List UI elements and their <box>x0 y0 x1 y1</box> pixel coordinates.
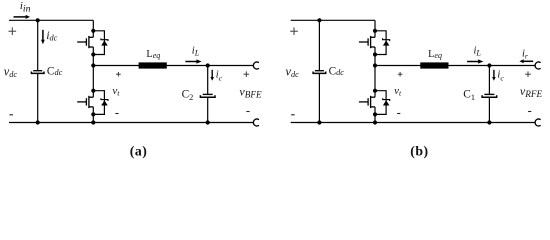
junction dot C2 top <box>206 63 210 67</box>
arrow iL <box>185 59 201 63</box>
transistor Q2 <box>77 96 93 108</box>
wire bottom return bus <box>9 122 254 124</box>
svg-text:ic: ic <box>497 70 504 83</box>
minus sign vt <box>115 113 118 115</box>
junction dot Cdc top <box>317 18 321 22</box>
arrow iL <box>467 59 483 63</box>
svg-text:vt: vt <box>112 85 120 98</box>
svg-text:vRFE: vRFE <box>520 84 543 99</box>
wire midpoint to output <box>93 65 253 67</box>
junction dot leg bottom <box>91 120 95 124</box>
svg-text:ic: ic <box>216 70 223 83</box>
wire C1 branch lower <box>488 97 490 122</box>
minus sign vRFE port <box>528 111 531 113</box>
minus sign vdc port <box>9 114 13 116</box>
plus sign vt <box>116 72 121 77</box>
junction dot drain Q2 <box>91 89 95 93</box>
terminal vRFE - <box>535 119 540 126</box>
wire Cdc branch lower <box>318 74 320 123</box>
svg-text:Leq: Leq <box>428 49 442 60</box>
junction dot source Q3 <box>373 52 377 56</box>
junction dot midpoint <box>91 63 95 67</box>
plus sign vdc port <box>290 27 298 35</box>
terminal vRFE + <box>535 62 540 69</box>
svg-text:idc: idc <box>46 30 57 43</box>
junction dot midpoint <box>373 63 377 67</box>
wire Cdc branch lower <box>37 74 39 123</box>
junction dot C1 bottom <box>487 120 491 124</box>
junction dot C1 top <box>487 63 491 67</box>
terminal vBFE - <box>253 119 258 126</box>
body diode D4 <box>375 91 390 115</box>
svg-text:(a): (a) <box>130 144 148 160</box>
svg-text:vdc: vdc <box>286 64 300 79</box>
junction dot Cdc bottom <box>317 120 321 124</box>
minus sign vt <box>397 113 400 115</box>
svg-text:Cdc: Cdc <box>47 65 63 77</box>
svg-text:vBFE: vBFE <box>239 85 262 100</box>
wire top dc bus <box>9 19 93 21</box>
svg-text:vt: vt <box>394 85 402 98</box>
plus sign vRFE port <box>525 71 531 77</box>
capacitor Cdc <box>31 71 44 74</box>
body diode D2 <box>93 91 108 115</box>
junction dot C2 bottom <box>206 120 210 124</box>
svg-text:iL: iL <box>192 46 200 58</box>
arrow iin <box>14 15 31 19</box>
arrow ic <box>210 70 214 81</box>
plus sign vdc port <box>8 27 16 35</box>
minus sign vBFE port <box>246 111 249 113</box>
svg-text:C1: C1 <box>463 88 475 102</box>
svg-text:iL: iL <box>474 46 482 58</box>
wire top dc bus <box>291 19 375 21</box>
wire bottom return bus <box>291 122 536 124</box>
svg-text:ir: ir <box>522 49 529 61</box>
svg-text:C2: C2 <box>182 88 194 102</box>
wire C2 branch lower <box>207 97 209 122</box>
junction dot source Q1 <box>91 52 95 56</box>
svg-text:Cdc: Cdc <box>329 65 345 77</box>
junction dot source Q2 <box>91 112 95 116</box>
junction dot drain Q1 <box>91 29 95 33</box>
wire C2 branch upper <box>207 66 209 95</box>
body diode D3 <box>375 31 390 55</box>
svg-text:iin: iin <box>20 0 31 14</box>
body diode D1 <box>93 31 108 55</box>
wire Cdc branch upper <box>318 20 320 70</box>
junction dot Cdc top <box>36 18 40 22</box>
plus sign vt <box>398 72 403 77</box>
junction dot drain Q3 <box>373 29 377 33</box>
junction dot leg bottom <box>373 120 377 124</box>
junction dot source Q4 <box>373 112 377 116</box>
svg-text:Leq: Leq <box>146 49 160 60</box>
capacitor Cdc <box>313 71 326 74</box>
wire midpoint to output <box>375 65 535 67</box>
wire C1 branch upper <box>488 66 490 95</box>
arrow ir <box>519 59 533 63</box>
plus sign vBFE port <box>244 71 250 77</box>
arrow ic <box>492 70 496 81</box>
capacitor C2 <box>200 94 215 97</box>
minus sign vdc port <box>291 114 295 116</box>
junction dot drain Q4 <box>373 89 377 93</box>
svg-text:(b): (b) <box>410 144 429 160</box>
transistor Q3 <box>359 36 375 48</box>
wire half-bridge leg <box>92 20 94 122</box>
svg-text:vdc: vdc <box>4 64 18 79</box>
capacitor C1 <box>482 94 497 97</box>
inductor Leq <box>420 62 448 68</box>
wire half-bridge leg <box>374 20 376 122</box>
transistor Q4 <box>359 96 375 108</box>
arrow idc <box>41 30 45 44</box>
transistor Q1 <box>77 36 93 48</box>
terminal vBFE + <box>253 62 258 69</box>
junction dot Cdc bottom <box>36 120 40 124</box>
inductor Leq <box>139 62 167 68</box>
wire Cdc branch upper <box>37 20 39 70</box>
